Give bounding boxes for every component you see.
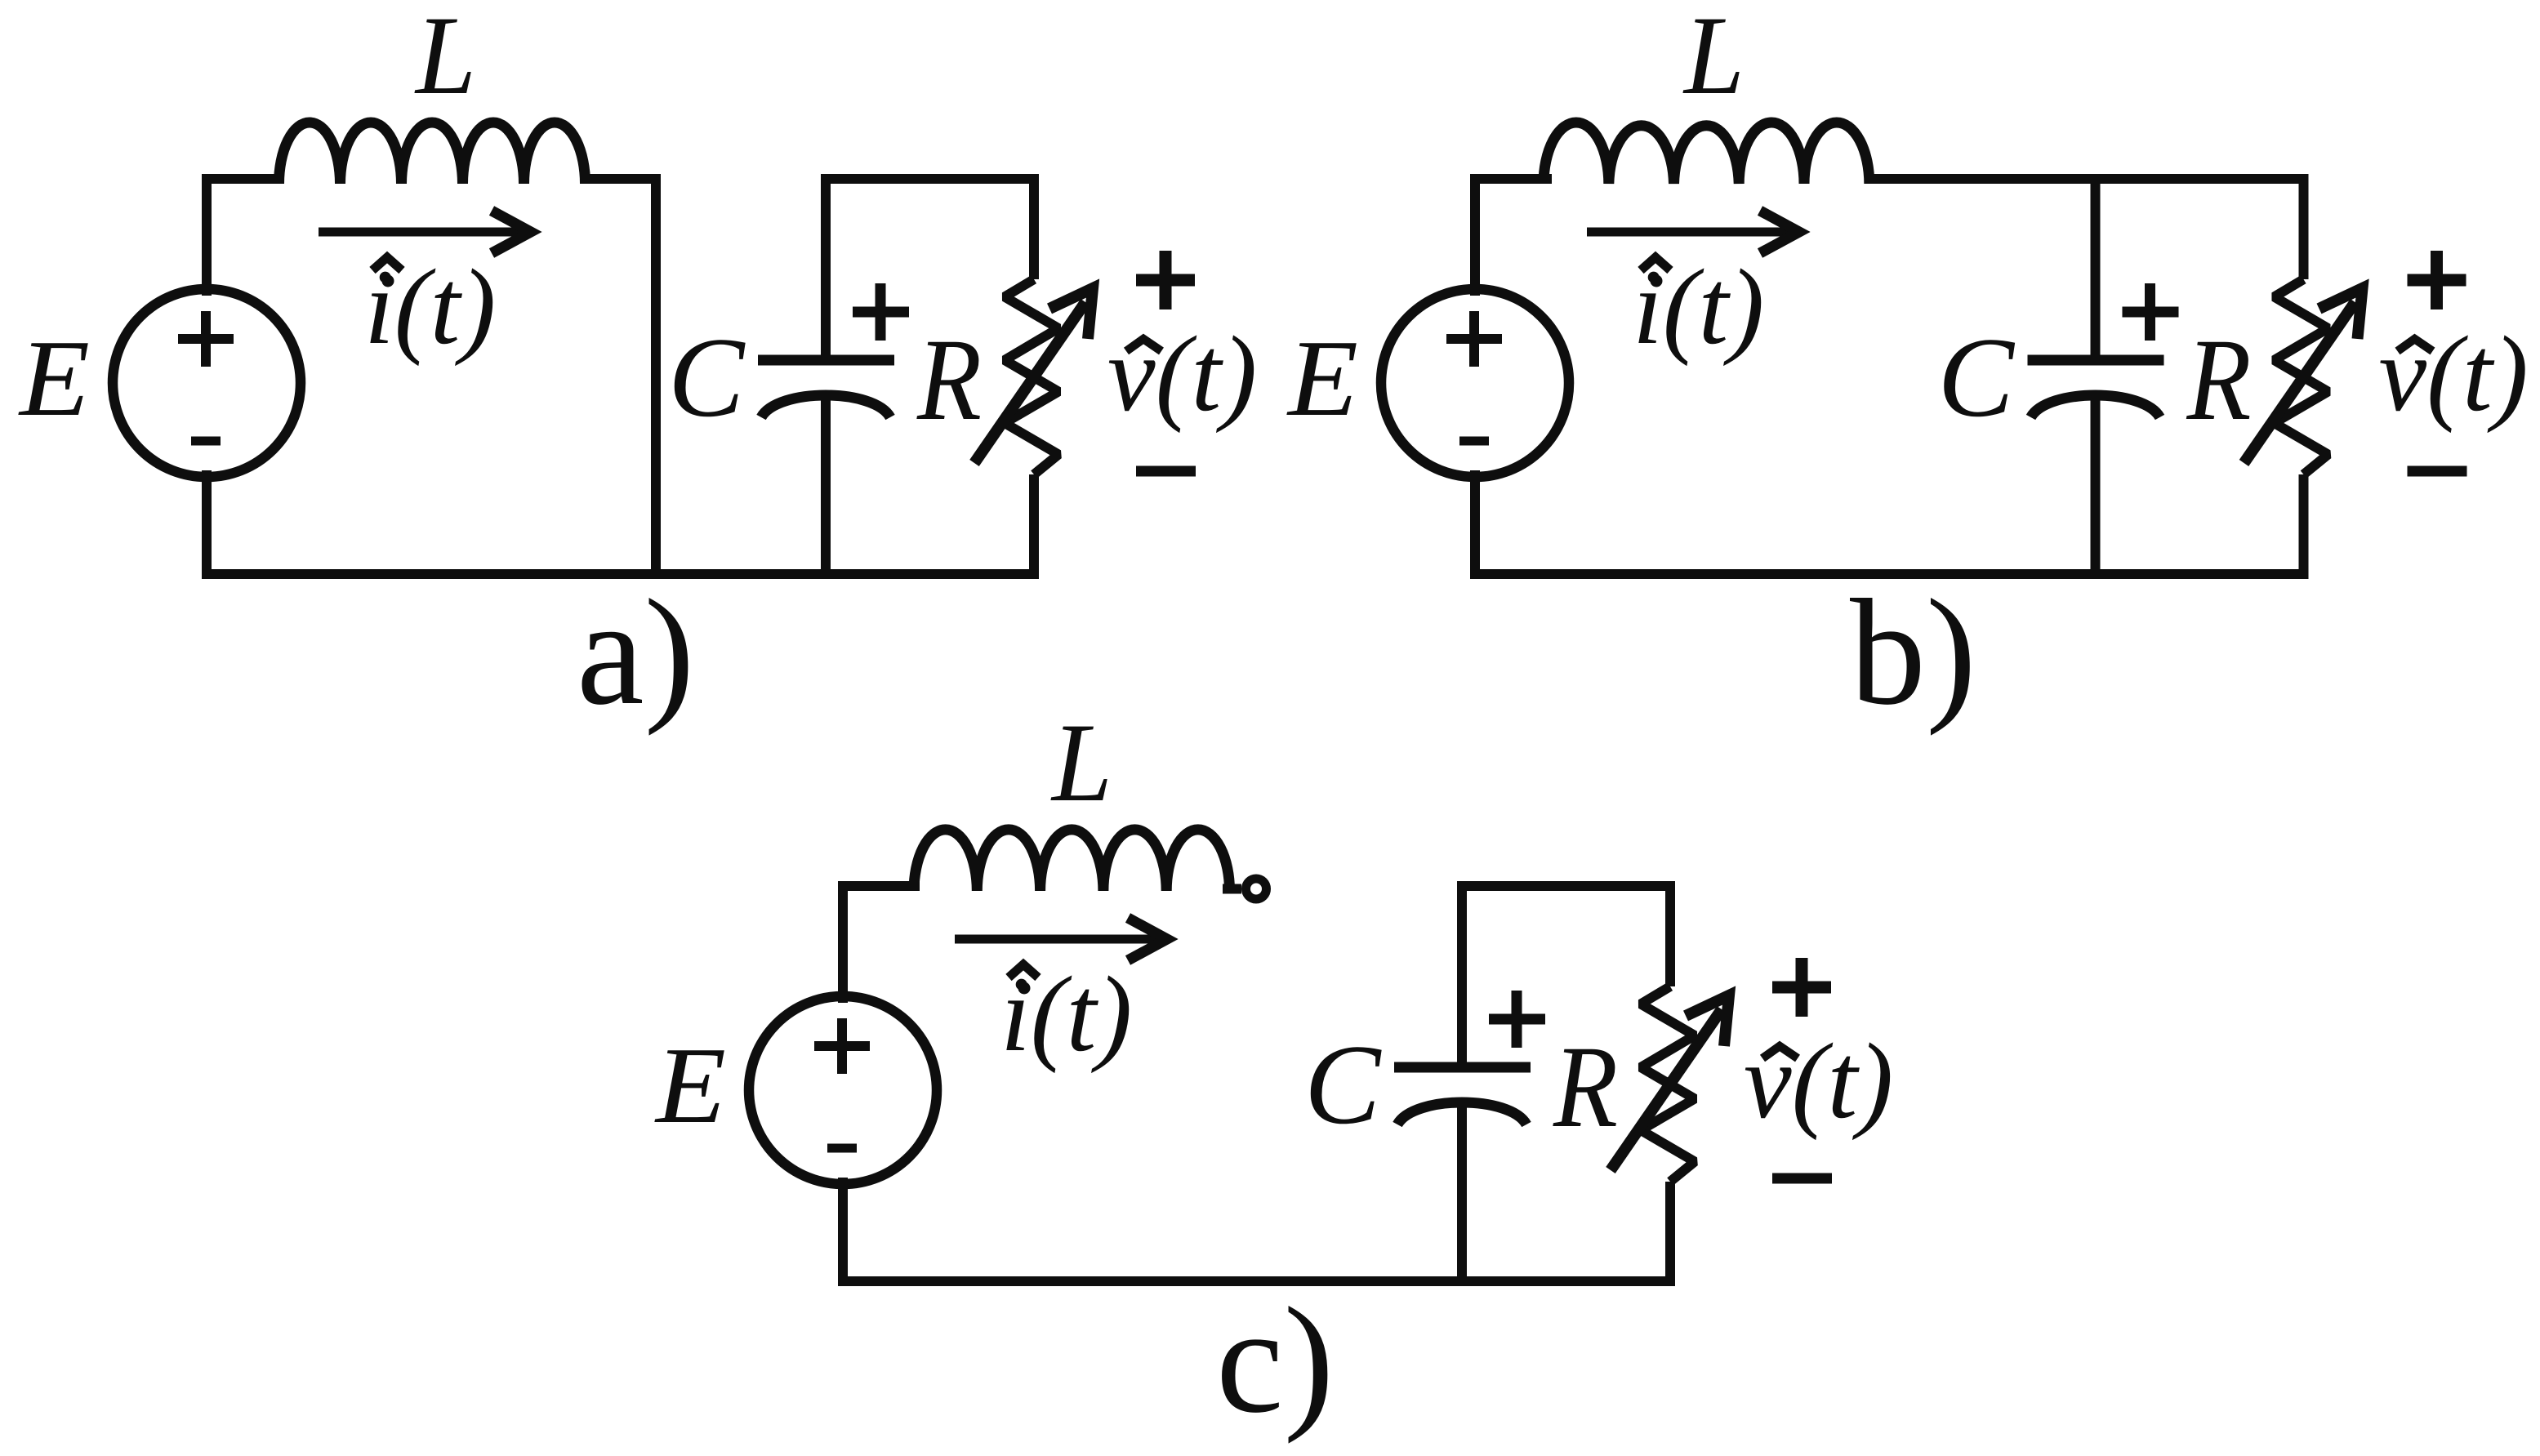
inductor L (circuit c) — [914, 830, 1230, 891]
wire: E bottom lead (circuit c) — [838, 1182, 848, 1281]
svg-text:L: L — [1682, 0, 1745, 118]
svg-text:v(t): v(t) — [1107, 314, 1257, 434]
svg-text:R: R — [1553, 1022, 1618, 1152]
output plus mark (circuit b) — [2408, 251, 2466, 309]
output plus mark (circuit a) — [1136, 251, 1195, 309]
capacitor C (circuit b) — [2028, 174, 2164, 579]
wire: bottom rail (circuit a) — [202, 569, 1039, 579]
svg-text:i(t): i(t) — [1000, 954, 1132, 1074]
svg-text:b): b) — [1850, 568, 1976, 737]
inductor L (circuit a) — [279, 122, 586, 184]
i(t) current label (circuit b) — [1633, 247, 1764, 367]
current arrow i(t) (circuit c) — [955, 918, 1167, 960]
wire: C-R network top rail (circuit c) — [1457, 881, 1675, 891]
wire: E top lead and top-left corner (circuit a) — [207, 179, 279, 291]
voltage source E (circuit b) — [1381, 289, 1569, 477]
capacitor plus polarity mark (circuit b) — [2123, 283, 2179, 341]
resistor adjustment arrow (circuit b) — [2244, 288, 2363, 463]
svg-text:C: C — [1938, 314, 2016, 441]
wire: C-R network top rail (circuit a) — [821, 174, 1039, 184]
output plus mark (circuit c) — [1772, 958, 1831, 1017]
resistor R variable (circuit b) — [2275, 174, 2328, 579]
resistor R variable (circuit a) — [1005, 174, 1058, 579]
wire: E top lead and top-left corner (circuit b) — [1475, 179, 1547, 291]
i(t) current label (circuit c) — [1000, 954, 1132, 1074]
capacitor C (circuit c) — [1394, 881, 1531, 1286]
voltage source E (circuit c) — [749, 996, 937, 1184]
output minus mark (circuit c) — [1772, 1173, 1832, 1184]
svg-text:E: E — [18, 318, 90, 439]
svg-text:a): a) — [577, 568, 695, 737]
capacitor plus polarity mark (circuit c) — [1489, 991, 1545, 1048]
svg-text:E: E — [1286, 318, 1358, 439]
svg-text:E: E — [654, 1025, 726, 1146]
svg-text:c): c) — [1216, 1276, 1335, 1445]
resistor adjustment arrow (circuit c) — [1611, 995, 1729, 1170]
svg-text:C: C — [668, 314, 746, 441]
svg-text:R: R — [2186, 315, 2252, 445]
v(t) output label (circuit b) — [2379, 314, 2529, 434]
svg-text:v(t): v(t) — [2379, 314, 2529, 434]
i(t) current label (circuit a) — [364, 247, 496, 367]
wire: top rail from inductor to resistor branch (circuit b) — [1866, 174, 2309, 184]
svg-text:i(t): i(t) — [364, 247, 496, 367]
wire: E bottom lead (circuit a) — [202, 475, 212, 574]
capacitor plus polarity mark (circuit a) — [853, 283, 909, 341]
svg-text:C: C — [1304, 1022, 1382, 1148]
current arrow i(t) (circuit b) — [1587, 211, 1799, 253]
svg-text:R: R — [916, 315, 982, 445]
inductor L (circuit b) — [1544, 122, 1869, 184]
capacitor C (circuit a) — [758, 174, 894, 579]
resistor R variable (circuit c) — [1641, 881, 1695, 1286]
current arrow i(t) (circuit a) — [319, 211, 531, 253]
output minus mark (circuit b) — [2408, 466, 2467, 477]
v(t) output label (circuit c) — [1744, 1021, 1893, 1141]
v(t) output label (circuit a) — [1107, 314, 1257, 434]
voltage source E (circuit a) — [113, 289, 301, 477]
wire: E top lead and top-left corner (circuit c) — [843, 886, 915, 998]
output minus mark (circuit a) — [1136, 466, 1196, 477]
svg-text:i(t): i(t) — [1633, 247, 1764, 367]
wire: inductor to right branch of source loop (circuit a) — [587, 179, 656, 574]
svg-text:L: L — [1050, 700, 1112, 825]
wire: inductor to open terminal (circuit c) — [1223, 884, 1241, 894]
wire: bottom rail (circuit b) — [1470, 569, 2309, 579]
resistor adjustment arrow (circuit a) — [974, 288, 1093, 463]
svg-text:v(t): v(t) — [1744, 1021, 1893, 1141]
wire: E bottom lead (circuit b) — [1470, 475, 1480, 574]
wire: bottom rail (circuit c) — [838, 1276, 1675, 1286]
svg-text:L: L — [414, 0, 476, 118]
open terminal node (circuit c) — [1246, 879, 1267, 899]
